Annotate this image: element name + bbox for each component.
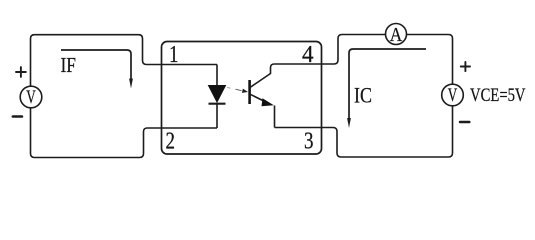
voltage source V (left)	[20, 86, 42, 108]
current arrow IC	[347, 49, 426, 128]
label + (right)	[461, 62, 470, 71]
phototransistor Q1	[250, 64, 275, 128]
svg-text:IC: IC	[354, 83, 372, 108]
collector lead	[250, 64, 275, 88]
svg-text:IF: IF	[61, 53, 77, 77]
svg-text:1: 1	[169, 41, 179, 68]
wire: right measuring loop	[275, 35, 453, 158]
voltage source V (right)	[442, 84, 464, 106]
ammeter A	[386, 24, 407, 46]
svg-text:V: V	[26, 87, 36, 108]
label + (left)	[16, 67, 26, 77]
wire: left source loop	[31, 35, 218, 158]
svg-text:A: A	[390, 25, 403, 46]
svg-text:2: 2	[166, 128, 176, 155]
emitter lead with arrow	[250, 94, 263, 100]
light arrow (LED to transistor)	[227, 87, 248, 93]
current arrow IF	[61, 50, 133, 89]
optocoupler U1 package box	[162, 42, 322, 155]
svg-text:V: V	[448, 85, 458, 106]
svg-text:VCE=5V: VCE=5V	[470, 85, 526, 106]
base bar	[248, 80, 251, 104]
svg-text:3: 3	[304, 128, 314, 155]
LED D1 (emitter diode)	[209, 65, 226, 129]
label - (right)	[460, 121, 469, 124]
label - (left)	[13, 115, 22, 118]
